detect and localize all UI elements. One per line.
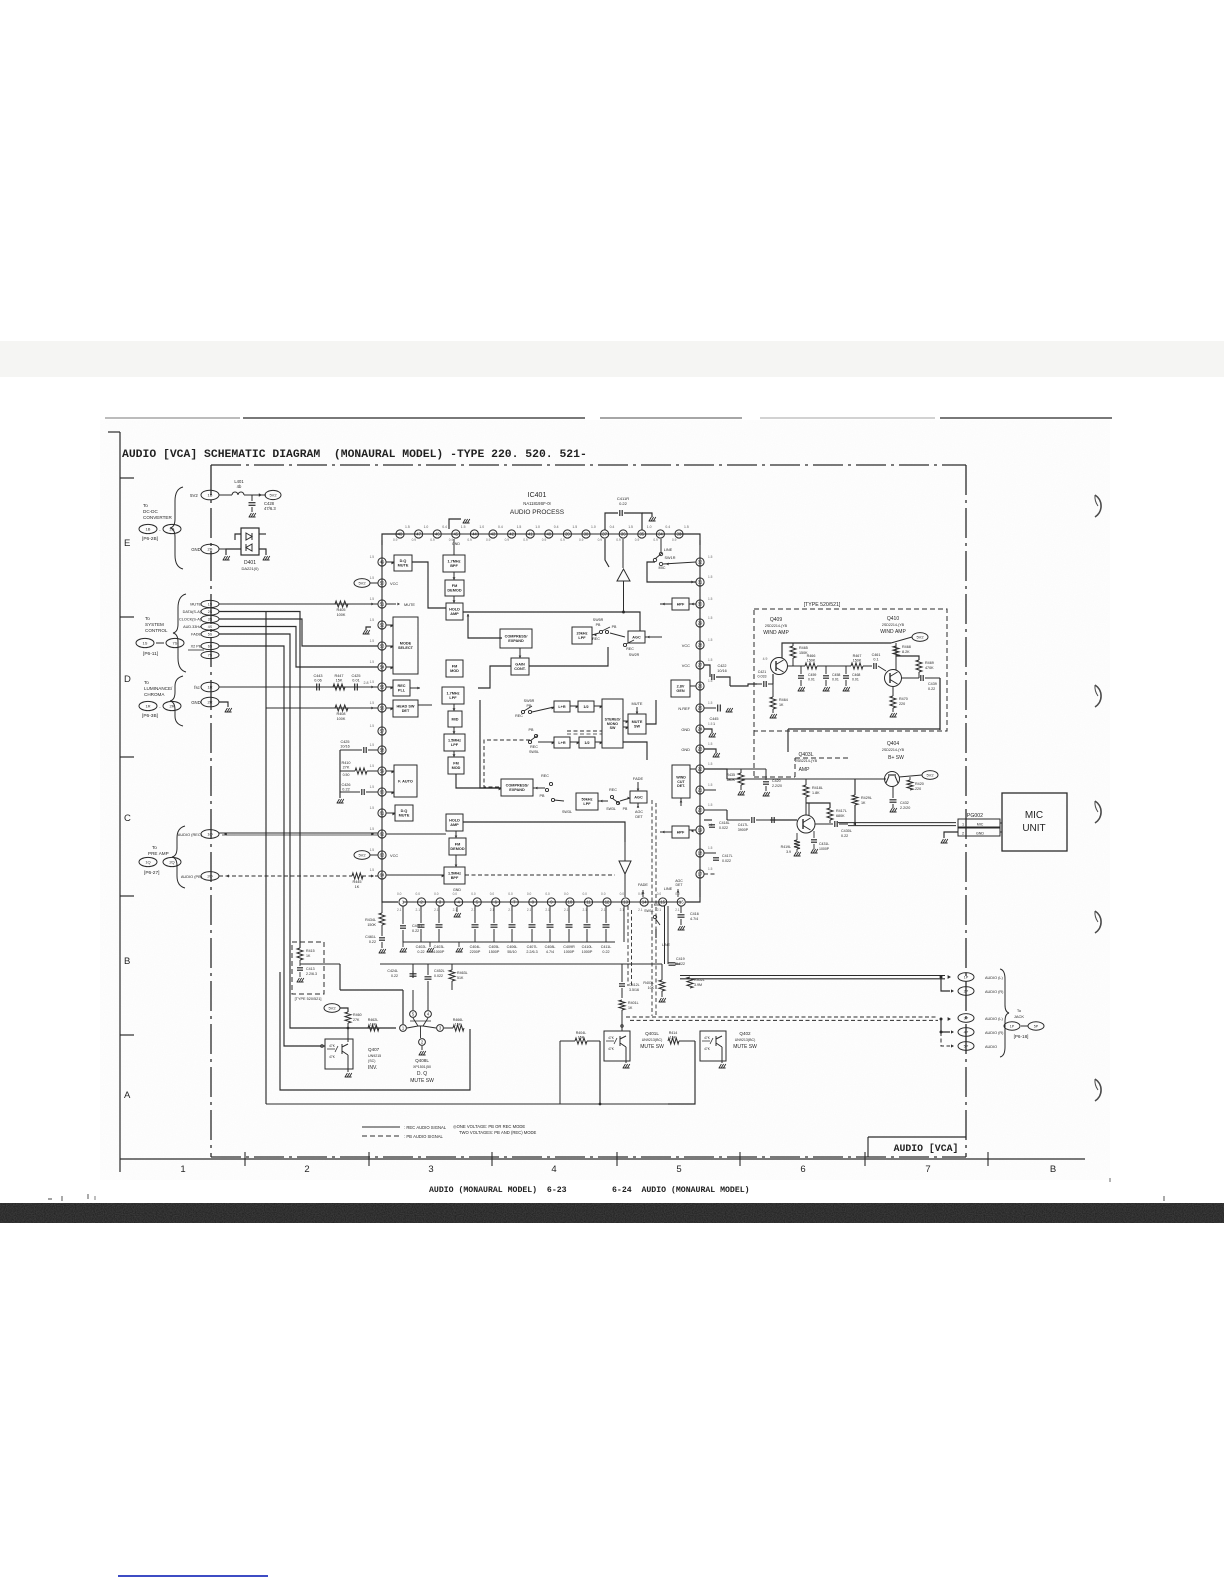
resistor R404L (575, 1038, 587, 1044)
block FM DEMOD upper (445, 580, 464, 596)
ground pin24 (704, 729, 712, 733)
capacitor C411L (605, 906, 607, 923)
supply oval 5V2 Q407 (324, 1004, 340, 1013)
block 1.7MHz BPF (443, 555, 465, 572)
resistor R466 (805, 663, 817, 669)
wire pin13 down (623, 906, 625, 942)
resistor R470 (890, 696, 896, 708)
block HOLD AMP lower (446, 814, 463, 831)
wire pin61-dq (386, 812, 395, 814)
resistor R464 (770, 697, 776, 709)
wire r466-r467 (817, 665, 851, 667)
wire q401 emitter (625, 1047, 627, 1063)
resistor R466L (453, 1025, 464, 1031)
block MID (448, 711, 462, 727)
wire wind-down (680, 798, 682, 806)
svg-text:AUDIO (MONAURAL MODEL) 6-23: AUDIO (MONAURAL MODEL) 6-23 (429, 1185, 567, 1195)
wire audio L pb dashed (626, 1016, 938, 1018)
wire GND-D401 (219, 548, 241, 550)
wire q402 emitter (721, 1047, 723, 1063)
resistor R417L (827, 808, 833, 820)
transistor Q404 (885, 772, 900, 787)
block 1.7MHz LPF (442, 687, 464, 704)
black separation bar (0, 1203, 1224, 1223)
wire l+r-half u (570, 705, 578, 707)
resistor R445 (352, 873, 363, 879)
supply oval 5V2 Q404 (922, 771, 938, 780)
wire windamp out (939, 678, 941, 730)
wire stereo right out (623, 742, 647, 760)
supply oval 5V2 (265, 490, 281, 499)
block MODE SELECT (393, 617, 418, 674)
junction dots output (940, 976, 943, 979)
dashed box TYPE 520/521 small (292, 942, 324, 994)
resistor R467 (851, 663, 863, 669)
wire gain-right (529, 647, 608, 666)
wire hold long right (463, 612, 640, 631)
wire pin53-mode (386, 645, 393, 647)
wire 5V2 (219, 494, 232, 496)
wire agc-right (645, 636, 662, 638)
paper grain overlay (100, 420, 1110, 1180)
capacitor C421 (757, 683, 762, 685)
wire lower bus 964 (380, 963, 662, 965)
supply oval 5V2 pin50 (354, 579, 370, 588)
connector bracket SYSTEM (173, 594, 186, 672)
wire comp-sw (533, 787, 545, 789)
ground bus2 (458, 942, 460, 947)
wire lpf-mid (453, 704, 455, 711)
wire audio pb dashed (219, 875, 352, 877)
block D.Q MUTE lower (395, 805, 413, 821)
block HPF lower (672, 826, 689, 838)
resistor R419L (794, 840, 800, 849)
wire hold2-right (463, 822, 625, 842)
wire bottom-right corner (686, 880, 700, 902)
wire amp input (770, 819, 797, 821)
wire 28v-pin26 (690, 685, 696, 687)
wire hpf-pin30 (689, 603, 696, 605)
wire pg002-mic (1000, 822, 1002, 824)
wire sw5r-l+r (532, 707, 554, 712)
wire triangle down (619, 861, 631, 874)
wire q410-c439 (901, 677, 919, 679)
ground bus1 (429, 942, 431, 947)
box MIC UNIT (1002, 793, 1067, 851)
resistor R462L (368, 1025, 379, 1031)
binder hole marks (1095, 495, 1101, 517)
wire sw5l-l+r (538, 741, 554, 743)
wire line double (664, 906, 666, 964)
box lower left frame (280, 972, 470, 1090)
wire hpf2-left (660, 831, 672, 833)
oval 2P (958, 987, 974, 996)
wire dashed loop compress (484, 740, 530, 787)
wire wind-pin22 (690, 768, 696, 770)
wire sw1r-down (647, 562, 696, 582)
wire mid-lpf15 (453, 727, 455, 734)
block HPF upper (672, 598, 689, 610)
wire bus x2pb (219, 646, 325, 1046)
ground hook pin44 (449, 519, 461, 529)
wire fm-compress (456, 774, 501, 788)
capacitor C452L (427, 981, 429, 1010)
transistor box Q402 (700, 1031, 726, 1061)
connector bracket PREAMP (172, 826, 185, 888)
capacitor C409R (568, 906, 570, 923)
resistor R460 (345, 1012, 351, 1023)
wire pin59-fauto (386, 770, 394, 772)
transistor group Q408L (410, 1011, 417, 1018)
stray marks bottom left (48, 1198, 52, 1200)
resistor R447 (333, 684, 345, 690)
ground c426 rail (339, 792, 341, 798)
wire mute pin51 (219, 603, 378, 605)
wire fsc line (219, 686, 378, 688)
ovals 1P-5P ref (1004, 1022, 1020, 1030)
wire pin13 dashed pair (628, 906, 632, 986)
block HEAD SW DET (393, 700, 418, 717)
dashed box TYPE 520/521 (754, 609, 947, 731)
diode block D401 (241, 528, 259, 555)
bracket outputs (1000, 969, 1009, 1057)
oval 4P (958, 1028, 974, 1037)
block F.AUTO (394, 765, 417, 797)
wire sw3l-agc (620, 798, 630, 801)
transistor Q409 (771, 658, 788, 675)
resistor R463L (449, 970, 455, 981)
wire lpf20-sw (592, 633, 599, 635)
wire q409 collector (782, 643, 891, 658)
wire audio rec double (219, 832, 378, 834)
triangle amp up (617, 569, 630, 581)
wire bus aud33 (219, 627, 378, 668)
transistor Q410 (885, 670, 902, 687)
supply oval 5V2 pin63 (354, 851, 370, 860)
wire bus clock (219, 619, 378, 646)
capacitor C408L (549, 906, 551, 923)
block MUTE SW mid (628, 714, 646, 734)
wire pin37-amp (605, 539, 609, 567)
wire half-stereo u (594, 705, 602, 707)
resistor R434L (381, 880, 383, 913)
wire q410-5v2 (891, 637, 912, 643)
wire r408 line (266, 707, 378, 709)
IC401 top pin row (400, 533, 679, 535)
wire pin32-mic (663, 562, 696, 564)
ground C417R (642, 513, 652, 517)
wire pin49-block (386, 561, 394, 563)
ground pin4 (456, 907, 458, 912)
wire pin22-r435 (704, 769, 727, 779)
wire audio pb branch2 (941, 1032, 950, 1046)
wire q407 in junction (321, 1045, 324, 1048)
transistor box Q401L (604, 1031, 630, 1061)
capacitor C419 (669, 962, 676, 964)
wire amp-up (623, 581, 625, 612)
capacitor C407L (531, 906, 533, 923)
capacitor C406L (511, 906, 513, 923)
wire agcdet (637, 803, 639, 808)
block L+R upper (554, 701, 570, 712)
resistor R410 (355, 768, 367, 774)
capacitor C468 (845, 666, 847, 674)
capacitor C459 (800, 666, 802, 674)
wire pin34-stub (660, 539, 662, 552)
resistor R420 (907, 780, 913, 790)
oval 5P (958, 1042, 974, 1051)
block 1.5MHz LPF upper (444, 734, 465, 751)
capacitor C445 (704, 707, 716, 709)
wire windamp out down (788, 678, 940, 729)
supply oval 5V2 Q410 (912, 633, 928, 642)
block 1.5MHz BPF lower (444, 867, 465, 884)
wire audio R pb branch (941, 1020, 950, 1032)
wire c424 top rail (412, 964, 414, 971)
transistor Q403L (797, 815, 815, 833)
wire top-left corner (382, 534, 400, 545)
wire pin55-recpll (386, 686, 393, 688)
IC401 bottom pin row (403, 901, 681, 903)
resistor R465 (790, 646, 796, 658)
wire q407 emitter (347, 1055, 349, 1072)
wire q409-r466 (787, 665, 805, 667)
svg-text:6-24 AUDIO (MONAURAL MODEL): 6-24 AUDIO (MONAURAL MODEL) (612, 1185, 750, 1195)
block 20kHz LPF (572, 627, 592, 644)
capacitor C404L (474, 906, 476, 923)
legend dashed line (362, 1135, 400, 1137)
wire pin15-fade (655, 929, 657, 938)
resistor R402L (687, 977, 693, 988)
wire fade-agc (637, 782, 639, 791)
resistor R414 (668, 1038, 679, 1044)
wire dqmute-hold (412, 562, 446, 608)
dashed box AMP section (754, 731, 850, 777)
ground pin52 (366, 627, 371, 630)
wire pin18-c417b (704, 852, 710, 854)
wire lpf15-fmmod (453, 751, 455, 757)
blue footer line (118, 1575, 268, 1577)
ground pin23 (704, 749, 716, 753)
block COMPRESS/EXPAND lower (501, 779, 533, 796)
wire c425 rail (339, 750, 341, 792)
IC401 right pin column (699, 540, 701, 897)
wire bus data (219, 612, 300, 949)
capacitor C402L (420, 906, 422, 923)
wire q403 collector (808, 803, 810, 816)
capacitor C412L (621, 964, 623, 982)
ground 2R (219, 702, 228, 707)
wire bottom-left corner (382, 880, 398, 902)
connector bracket DC-DC (170, 487, 183, 569)
wire dashed pin64 bpf (465, 874, 615, 876)
wire q401 base top (621, 1024, 623, 1031)
capacitor C425b (354, 684, 356, 691)
block L+R lower (554, 737, 570, 748)
wire gain-left (478, 666, 511, 688)
capacitor C431L (813, 831, 815, 838)
wire q402-rail (668, 1041, 695, 1104)
wire mute-down (636, 707, 638, 714)
resistor R403L (659, 980, 665, 991)
capacitor C439 (920, 675, 922, 681)
wire pin56-head (386, 707, 393, 709)
capacitor C420 (765, 769, 767, 780)
block half upper (578, 701, 594, 712)
capacitor C413 (299, 960, 301, 966)
wire mutesw-out (646, 700, 656, 724)
resistor R408 (335, 705, 348, 711)
wire lower rail (266, 1103, 668, 1105)
wire head-right (418, 704, 432, 706)
block AGC lower (630, 791, 647, 803)
block COMPRESS/EXPAND upper (500, 629, 532, 648)
block REC PLL (393, 680, 410, 696)
capacitor C461 series (863, 665, 872, 667)
wire compress2-left (480, 700, 501, 788)
resistor R435 (738, 773, 744, 785)
scan streak line (105, 417, 240, 419)
oval 3P (958, 1014, 974, 1023)
wire demod-hold (453, 596, 455, 603)
wire windamp out to amp (787, 729, 789, 752)
wire bus vert extra (265, 612, 267, 1105)
wire q410 collector (895, 643, 897, 670)
block GAIN CONT (511, 658, 529, 675)
wire mic line (838, 822, 956, 824)
capacitor C432 (892, 787, 894, 798)
connector bracket LUMI (170, 676, 183, 726)
wire pg002 gnd (944, 832, 958, 838)
wire data-right (340, 989, 403, 991)
wire q408 gnd (421, 1046, 423, 1050)
corner box AUDIO VCA (868, 1136, 966, 1138)
wire windamp-in (730, 684, 757, 686)
bottom scale ticks (244, 1152, 246, 1166)
wire half-stereo l (595, 741, 602, 743)
block FM MOD lower (448, 757, 464, 774)
resistor R468 (893, 646, 899, 656)
bottom margin line (120, 1158, 1085, 1160)
wire bpf-demod (453, 572, 455, 580)
capacitor C426 (340, 791, 360, 793)
resistor R418L (803, 785, 809, 797)
wire recpll-out (410, 687, 420, 689)
wire demod-bpf l (455, 855, 457, 867)
wire pin52-mode (386, 624, 393, 626)
capacitor C428 (251, 495, 253, 501)
wire pin54-mode (386, 666, 393, 668)
wire gain-up (519, 648, 521, 658)
legend solid line (362, 1126, 400, 1128)
capacitor C458 (825, 666, 827, 674)
wire dashed right pair (652, 800, 656, 1016)
wire lpf50-right (598, 800, 608, 802)
bottom cap bus (403, 941, 615, 943)
wire hpf-left (660, 603, 672, 605)
block FM DEMOD lower (449, 838, 466, 855)
block D.Q MUTE upper (394, 555, 412, 571)
wire pin21 stub (704, 789, 716, 791)
wire D401 left (226, 549, 241, 555)
wire bpf-top (453, 539, 455, 555)
wire hpf2-pin19 (689, 829, 696, 831)
wire b+ rail (727, 778, 886, 780)
capacitor C443 (316, 684, 318, 691)
wire pin36 down (622, 539, 624, 568)
block STEREO/MONO SW (602, 699, 623, 748)
resistor R415 (297, 948, 303, 960)
wire pin62-hold (386, 833, 400, 835)
wire pin17 dash (704, 873, 716, 875)
resistor R405 (335, 601, 348, 607)
wire top-right corner (679, 534, 700, 545)
block WIND CUT DET (672, 765, 690, 798)
capacitor C403L (438, 906, 440, 923)
wire r435 rail (727, 768, 766, 770)
resistor R401L (619, 1000, 625, 1010)
capacitor C430L (815, 823, 833, 825)
wire audio rec arrowL (224, 832, 227, 835)
wire q408-r466L (444, 1027, 453, 1029)
wire pin20 out (704, 809, 727, 811)
block AGC upper (628, 631, 645, 643)
resistor R429L (852, 795, 858, 805)
capacitor C418L (704, 819, 712, 821)
wire q401-rail (599, 1041, 601, 1104)
wire pin64-bpf (386, 874, 444, 876)
wire pin60-fauto (386, 791, 394, 793)
wire q404-5v2 (899, 775, 922, 777)
IC401 left pin column (381, 540, 383, 880)
wire agc-sw2r (610, 633, 625, 637)
capacitor C417L b (704, 852, 716, 854)
ground C428 (249, 513, 256, 517)
resistor R469 (916, 660, 922, 672)
wire pin62 long (386, 833, 446, 835)
wire q408 caps (427, 981, 429, 1010)
wire stereo-mutesw (623, 720, 628, 722)
wire audio R branch (941, 978, 950, 991)
block 2.8V GEN (671, 680, 690, 697)
pin 7S (201, 651, 219, 658)
wire bus fade (219, 634, 396, 1028)
block HOLD AMP upper (446, 603, 463, 620)
left margin line (119, 432, 121, 1172)
wire hold-demod l (455, 831, 457, 838)
wire dashed stereo in (567, 730, 602, 732)
capacitor C401L (402, 906, 404, 924)
schematic frame (211, 464, 966, 466)
block 50kHz LPF (576, 793, 598, 810)
switch REC SW5L lower (528, 740, 531, 743)
wire r415-q408 (339, 964, 341, 990)
capacitor C410L (586, 906, 588, 923)
stray mark bottom right (1163, 1196, 1165, 1201)
ground bus left (402, 942, 404, 947)
block FM MOD upper (446, 660, 463, 677)
capacitor C416 (680, 906, 682, 913)
wire audio L out double (680, 975, 945, 977)
capacitor C425 10/16 (340, 749, 362, 751)
wire D401 top (235, 534, 241, 540)
wire D401 right (259, 549, 266, 555)
transistor box Q407 (325, 1039, 353, 1069)
capacitor C424L (412, 990, 414, 1010)
label MUTE pin51 (386, 603, 396, 605)
block half lower (579, 737, 595, 748)
wire r415-right (300, 963, 340, 965)
